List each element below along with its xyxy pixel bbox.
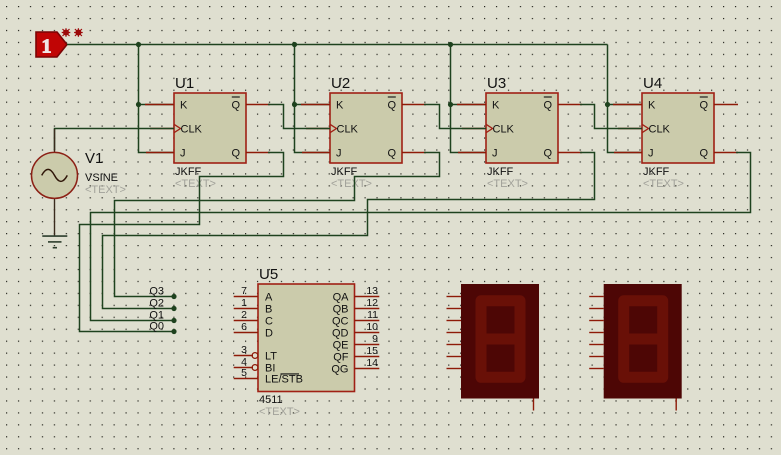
flip-flop U2 (JKFF): [301, 75, 426, 190]
svg-text:V1: V1: [85, 150, 103, 167]
wire: U1 Q to Q0 node: [80, 153, 284, 332]
svg-text:1: 1: [41, 35, 51, 57]
node Q2: [149, 298, 176, 312]
flip-flop U3 (JKFF): [457, 75, 582, 190]
svg-text:CLK: CLK: [493, 124, 515, 136]
svg-text:U1: U1: [175, 75, 194, 92]
svg-text:9: 9: [372, 333, 378, 345]
origin marker 2: [74, 28, 83, 37]
svg-text:5: 5: [241, 367, 247, 379]
svg-text:U2: U2: [331, 75, 350, 92]
svg-text:13: 13: [366, 285, 378, 297]
svg-text:<TEXT>: <TEXT>: [85, 184, 126, 196]
wire: U3 Q-bar to U4 CLK: [580, 105, 642, 129]
svg-text:14: 14: [366, 357, 378, 369]
svg-text:B: B: [265, 304, 272, 316]
flip-flop U1 (JKFF): [145, 75, 270, 190]
svg-text:12: 12: [366, 297, 378, 309]
junction at U3 K pin: [448, 102, 453, 107]
svg-text:<TEXT>: <TEXT>: [331, 178, 372, 190]
wire: rail feed to U2 K and J: [295, 45, 331, 153]
svg-text:LT: LT: [265, 351, 277, 363]
svg-text:K: K: [648, 100, 656, 112]
svg-text:QE: QE: [333, 340, 349, 352]
wire: U3 Q to Q2 node: [103, 153, 595, 309]
svg-text:Q: Q: [543, 100, 552, 112]
svg-text:<TEXT>: <TEXT>: [487, 178, 528, 190]
svg-text:A: A: [265, 292, 273, 304]
svg-text:15: 15: [366, 345, 378, 357]
svg-text:U3: U3: [487, 75, 506, 92]
svg-text:U5: U5: [259, 266, 278, 283]
svg-text:QA: QA: [333, 292, 350, 304]
svg-text:JKFF: JKFF: [487, 166, 514, 178]
svg-text:2: 2: [241, 309, 247, 321]
svg-text:Q: Q: [231, 148, 240, 160]
flip-flop U4 (JKFF): [613, 75, 738, 190]
input terminal flag 1: [36, 32, 67, 57]
wire: rail feed to U4 K and J: [608, 45, 643, 153]
svg-text:Q: Q: [699, 148, 708, 160]
svg-text:Q: Q: [699, 100, 708, 112]
node Q0: [149, 321, 176, 335]
7-segment display DS1: [447, 284, 540, 411]
svg-text:Q0: Q0: [149, 321, 164, 333]
svg-text:<TEXT>: <TEXT>: [643, 178, 684, 190]
wire: U2 Q to Q3 node: [115, 153, 440, 297]
svg-text:<TEXT>: <TEXT>: [175, 178, 216, 190]
svg-text:Q: Q: [387, 100, 396, 112]
svg-text:K: K: [336, 100, 344, 112]
svg-text:CLK: CLK: [337, 124, 359, 136]
wire: rail feed to U1 K and J: [139, 45, 175, 153]
node Q3: [149, 286, 176, 300]
junction at U1 K pin: [136, 102, 141, 107]
svg-text:J: J: [648, 148, 654, 160]
svg-text:K: K: [180, 100, 188, 112]
svg-text:J: J: [492, 148, 498, 160]
svg-text:<TEXT>: <TEXT>: [259, 406, 300, 418]
svg-text:J: J: [336, 148, 342, 160]
svg-text:VSINE: VSINE: [85, 172, 118, 184]
svg-text:QF: QF: [333, 352, 349, 364]
svg-text:3: 3: [241, 344, 247, 356]
svg-text:QD: QD: [332, 328, 349, 340]
wire: U4 Q to Q1 node: [91, 153, 751, 321]
svg-text:D: D: [265, 328, 273, 340]
7-segment display DS2: [589, 284, 682, 411]
svg-text:C: C: [265, 316, 273, 328]
junction on rail at U2 feed: [292, 42, 297, 47]
ground: [42, 236, 67, 248]
svg-text:1: 1: [241, 297, 247, 309]
svg-text:7: 7: [241, 285, 247, 297]
svg-text:Q2: Q2: [149, 298, 164, 310]
wire: clock rail from flag: [67, 44, 608, 46]
svg-text:10: 10: [366, 321, 378, 333]
svg-text:Q: Q: [543, 148, 552, 160]
svg-text:LE/STB: LE/STB: [265, 374, 303, 386]
wire: V1 to U1 CLK: [55, 129, 175, 151]
wire: rail feed to U3 K and J: [451, 45, 487, 153]
svg-text:Q: Q: [231, 100, 240, 112]
svg-text:J: J: [180, 148, 186, 160]
wire: U2 Q-bar to U3 CLK: [424, 105, 486, 129]
junction on rail at U3 feed: [448, 42, 453, 47]
svg-text:4511: 4511: [259, 394, 283, 406]
svg-text:Q3: Q3: [149, 286, 164, 298]
svg-text:11: 11: [367, 309, 378, 321]
svg-text:Q: Q: [387, 148, 396, 160]
node Q1: [149, 310, 176, 324]
svg-text:JKFF: JKFF: [331, 166, 358, 178]
origin marker 1: [62, 28, 71, 37]
svg-text:QC: QC: [332, 316, 349, 328]
svg-text:U4: U4: [643, 75, 662, 92]
svg-text:QG: QG: [331, 364, 348, 376]
svg-text:CLK: CLK: [181, 124, 203, 136]
svg-text:K: K: [492, 100, 500, 112]
decoder U5 (4511): [234, 266, 380, 418]
svg-text:JKFF: JKFF: [175, 166, 202, 178]
wire: U1 Q-bar to U2 CLK: [268, 105, 330, 129]
svg-text:JKFF: JKFF: [643, 166, 670, 178]
sine source V1 (VSINE): [32, 129, 126, 236]
svg-text:CLK: CLK: [649, 124, 671, 136]
junction at U4 K pin: [605, 102, 610, 107]
svg-text:QB: QB: [333, 304, 349, 316]
junction at U2 K pin: [292, 102, 297, 107]
svg-text:6: 6: [241, 321, 247, 333]
junction on rail at U1 feed: [136, 42, 141, 47]
